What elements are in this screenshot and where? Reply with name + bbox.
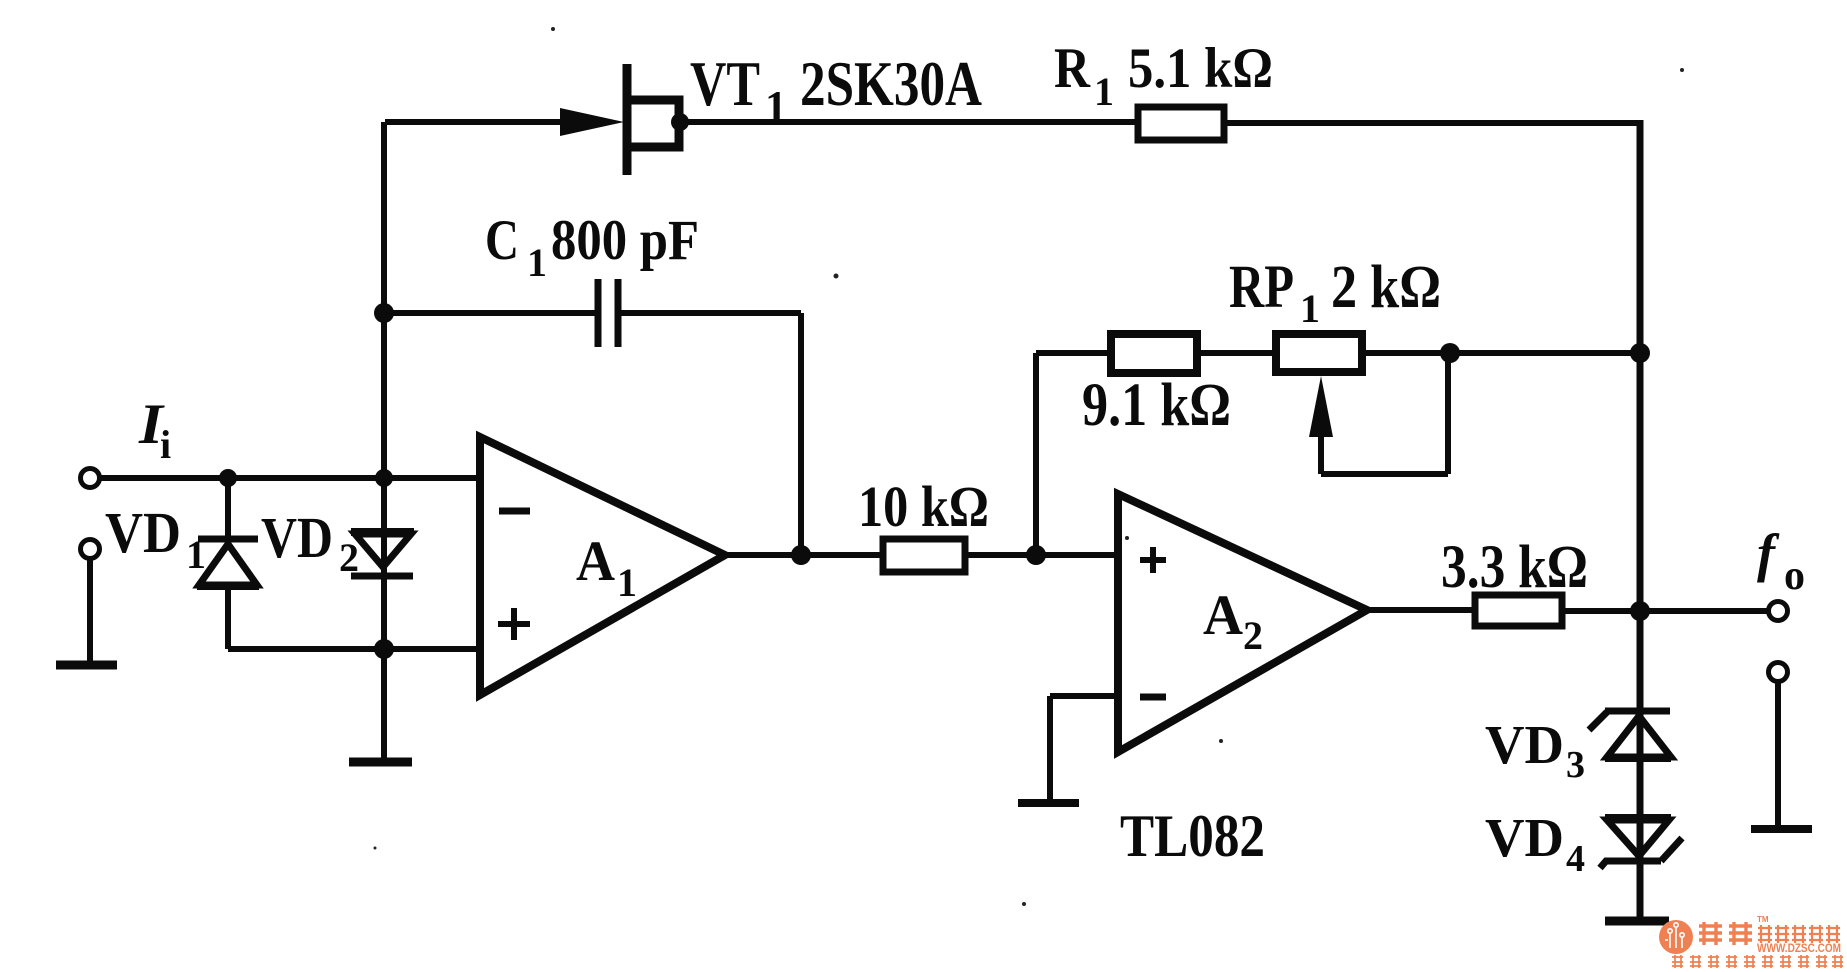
svg-text:A: A [1203,584,1243,647]
diode VD3 triangle [1607,716,1671,757]
resistor 9.1k body [1111,334,1197,373]
label VD3 [1485,714,1585,786]
wire 10k to A2 [965,552,1118,558]
diode VD3 base bar [1605,754,1671,762]
terminal Ii input circle [81,469,100,488]
svg-text:C: C [485,209,519,272]
svg-text:WWW.DZSC.COM: WWW.DZSC.COM [1757,941,1841,955]
svg-text:VD: VD [105,500,181,565]
diode VD4 top bar [1605,814,1671,822]
node C1 left junction [374,303,394,323]
svg-text:1: 1 [186,532,206,577]
A1 minus sign [499,508,530,515]
diode VD1 triangle [199,544,257,585]
svg-text:10 kΩ: 10 kΩ [858,474,989,539]
wire A2 inverting to ground [1050,696,1118,802]
svg-text:1: 1 [1094,69,1114,114]
wire C1 left [384,310,595,316]
svg-text:4: 4 [1566,838,1585,880]
wire RP1 to right vertical [1362,350,1640,356]
scan specks [374,27,1685,906]
svg-text:VD: VD [261,505,333,570]
A1 plus sign [498,608,530,640]
node right vertical RP junction [1630,343,1650,363]
svg-text:VD: VD [1485,714,1564,775]
wire fo return to ground [1775,681,1781,828]
arrow on gate wire [560,108,624,136]
wire right tall vertical [1637,120,1644,921]
label A2 [1203,584,1263,658]
label Ii [138,393,171,467]
resistor 3.3k body [1475,595,1562,626]
svg-text:VT: VT [690,48,760,119]
wire 3.3k to fo [1562,608,1769,614]
diode VD4 triangle [1607,820,1669,856]
node VD1 top junction [219,469,237,487]
ground VD4 [1605,917,1669,926]
svg-text:2: 2 [339,535,359,580]
label VD4 [1485,807,1585,880]
svg-text:VD: VD [1485,807,1564,868]
potentiometer RP1 body [1276,334,1362,372]
svg-text:5.1 kΩ: 5.1 kΩ [1128,37,1273,100]
watermark slogan [1672,955,1843,968]
wire A1 output [725,552,883,558]
watermark logo icon [1659,920,1693,954]
svg-text:RP: RP [1229,254,1294,321]
wire R1 to right corner [1224,120,1637,126]
svg-text:9.1 kΩ: 9.1 kΩ [1082,372,1231,439]
node RP1 wiper return junction [1440,343,1460,363]
terminal fo circle [1769,602,1788,621]
wire VT1 to R1 [680,119,1138,125]
svg-text:A: A [576,530,615,593]
diode VD1 anode stub [225,478,231,538]
label VD1 [105,500,206,577]
node 9.1k drop junction [1026,545,1046,565]
svg-text:800 pF: 800 pF [551,209,699,272]
diode VD3 cathode bar with hook [1589,711,1670,730]
wire left tall vertical [381,122,387,763]
resistor R1 body [1138,107,1224,140]
node VD2 bottom junction [374,639,394,659]
transistor VT1 gate bar [623,64,632,175]
svg-text:1: 1 [617,560,637,605]
node fo junction [1630,601,1650,621]
op-amp A1 triangle [480,437,725,695]
svg-text:TM: TM [1757,915,1769,924]
diode VD1 base bar [197,582,259,590]
wire input line [99,475,480,481]
label VD2 [261,505,359,580]
wire RP1 wiper loop [1321,353,1448,474]
node left-vertical input junction [375,469,393,487]
diode VD2 cathode bar [351,573,413,580]
A2 minus sign [1140,694,1166,701]
svg-text:1: 1 [1300,286,1320,331]
svg-text:i: i [160,422,171,467]
ground A2 [1018,799,1079,807]
svg-text:f: f [1757,523,1780,583]
transistor VT1 channel box [629,100,679,147]
op-amp A2 triangle [1118,494,1367,752]
label C1 800 pF [485,209,699,285]
watermark text dianzishichangwang [1758,925,1840,943]
node VT1 source-drain junction [671,113,689,131]
wire 9.1k to RP1 [1197,350,1276,356]
wire VD1 bottom [225,586,231,649]
wire gate feed from left vertical to VT1 gate [385,119,572,125]
watermark text weiku [1672,915,1843,968]
svg-text:3.3 kΩ: 3.3 kΩ [1441,534,1588,601]
capacitor C1 plates [598,279,618,347]
wire A2 output [1367,607,1475,613]
svg-text:3: 3 [1566,744,1585,786]
terminal fo return circle [1769,663,1788,682]
svg-text:R: R [1054,37,1091,100]
ground lower input [56,661,117,670]
svg-text:1: 1 [527,240,547,285]
RP1 wiper arrow [1309,376,1333,437]
wire up to 9.1k [1036,353,1111,555]
svg-text:o: o [1784,553,1805,599]
label RP1 2 kOhm [1229,254,1441,331]
svg-text:1: 1 [765,82,787,131]
diode VD4 cathode bar with hook [1600,838,1682,868]
label VT1 2SK30A [690,48,982,131]
ground fo return [1751,825,1812,833]
label fo [1757,523,1805,599]
node A1 output junction [791,545,811,565]
diode VD2 triangle [355,534,411,567]
terminal lower input circle [81,540,100,559]
wire lower terminal to ground [87,558,93,664]
A2 plus sign [1140,547,1166,573]
label R1 5.1 kOhm [1054,37,1273,114]
wire C1 right to corner and down to A1 output [621,313,801,553]
wire noninverting net A1 [228,646,480,652]
ground VD2 net [349,758,412,767]
diode VD1 cathode bar [198,536,258,543]
svg-text:2 kΩ: 2 kΩ [1331,254,1441,321]
label A1 [576,530,637,605]
resistor 10k body [883,539,965,572]
svg-text:2: 2 [1243,613,1263,658]
diode VD2 top bar [351,528,414,536]
svg-text:2SK30A: 2SK30A [800,48,982,119]
svg-text:TL082: TL082 [1120,803,1265,869]
